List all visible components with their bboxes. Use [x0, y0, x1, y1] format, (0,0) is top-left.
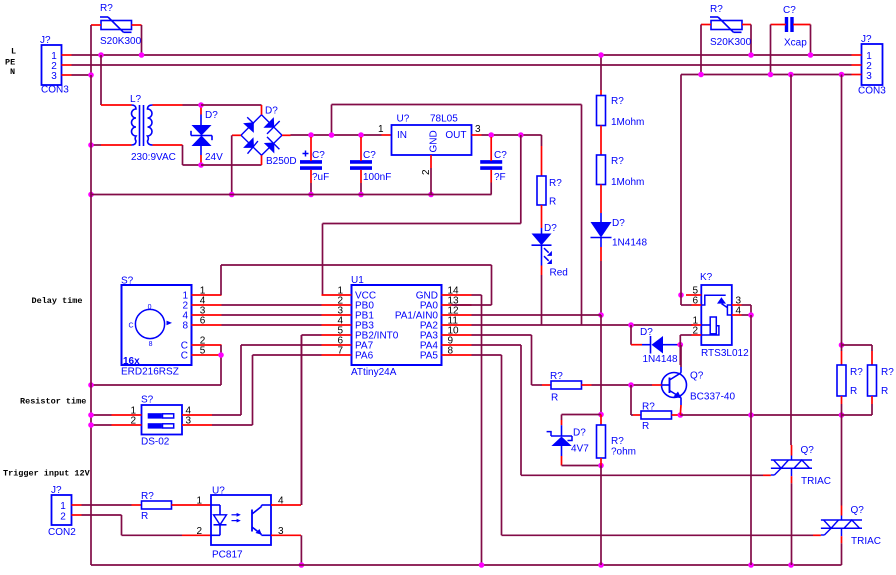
svg-text:24V: 24V — [205, 152, 223, 163]
svg-text:R: R — [549, 197, 556, 208]
svg-text:C?: C? — [783, 5, 796, 16]
svg-text:TRIAC: TRIAC — [801, 476, 831, 487]
svg-text:Q?: Q? — [801, 445, 815, 456]
svg-text:R: R — [881, 386, 888, 397]
svg-text:8: 8 — [149, 341, 153, 348]
svg-text:D?: D? — [612, 218, 625, 229]
svg-text:U1: U1 — [351, 275, 364, 286]
svg-text:R?: R? — [611, 156, 624, 167]
svg-text:R?: R? — [850, 367, 863, 378]
svg-text:U?: U? — [212, 486, 225, 497]
svg-text:R?: R? — [881, 367, 894, 378]
svg-text:U?: U? — [397, 114, 410, 125]
svg-text:2: 2 — [60, 511, 66, 522]
svg-text:S?: S? — [141, 395, 154, 406]
svg-text:R: R — [141, 511, 148, 522]
svg-text:2: 2 — [196, 526, 202, 537]
svg-text:2: 2 — [130, 416, 136, 427]
svg-text:R?: R? — [611, 436, 624, 447]
svg-text:3: 3 — [51, 71, 57, 82]
svg-text:C: C — [129, 323, 134, 330]
svg-text:D?: D? — [640, 327, 653, 338]
svg-text:R?: R? — [141, 491, 154, 502]
svg-text:N: N — [10, 67, 15, 77]
svg-text:3: 3 — [866, 71, 872, 82]
svg-text:3: 3 — [475, 124, 481, 135]
svg-text:CON2: CON2 — [48, 527, 76, 538]
svg-text:DS-02: DS-02 — [141, 437, 170, 448]
svg-text:R: R — [551, 393, 558, 404]
svg-text:C?: C? — [363, 150, 376, 161]
svg-text:R: R — [850, 386, 857, 397]
svg-text:PA5: PA5 — [420, 351, 439, 362]
svg-text:R?: R? — [100, 3, 113, 14]
svg-text:J?: J? — [861, 34, 872, 45]
svg-text:TRIAC: TRIAC — [851, 536, 881, 547]
svg-text:8: 8 — [182, 321, 188, 332]
svg-text:S20K300: S20K300 — [100, 36, 142, 47]
svg-text:1: 1 — [196, 496, 202, 507]
svg-text:Trigger input 12V: Trigger input 12V — [3, 469, 91, 479]
svg-text:C?: C? — [312, 150, 325, 161]
svg-text:Resistor time: Resistor time — [20, 397, 86, 407]
svg-text:3: 3 — [186, 416, 192, 427]
svg-text:230:9VAC: 230:9VAC — [131, 152, 176, 163]
svg-text:J?: J? — [51, 485, 62, 496]
svg-text:C: C — [181, 351, 188, 362]
svg-text:R?: R? — [549, 178, 562, 189]
svg-text:Delay time: Delay time — [32, 296, 83, 306]
svg-text:Xcap: Xcap — [784, 38, 807, 49]
svg-text:1N4148: 1N4148 — [643, 354, 678, 365]
svg-text:100nF: 100nF — [363, 172, 391, 183]
svg-text:4V7: 4V7 — [571, 444, 589, 455]
svg-text:R?: R? — [611, 96, 624, 107]
svg-text:B250D: B250D — [266, 156, 297, 167]
svg-text:D?: D? — [205, 110, 218, 121]
svg-text:CON3: CON3 — [41, 85, 69, 96]
svg-text:PE: PE — [5, 58, 15, 68]
svg-text:78L05: 78L05 — [430, 114, 458, 125]
svg-text:L?: L? — [130, 94, 142, 105]
svg-text:ERD216RSZ: ERD216RSZ — [121, 367, 179, 378]
svg-text:RTS3L012: RTS3L012 — [701, 348, 749, 359]
svg-text:1Mohm: 1Mohm — [611, 177, 644, 188]
svg-text:4: 4 — [736, 306, 742, 317]
svg-text:5: 5 — [200, 346, 206, 357]
svg-text:IN: IN — [397, 130, 407, 141]
svg-text:CON3: CON3 — [858, 86, 886, 97]
svg-text:0: 0 — [148, 304, 152, 311]
svg-text:D?: D? — [544, 223, 557, 234]
svg-text:OUT: OUT — [445, 130, 466, 141]
svg-text:ATtiny24A: ATtiny24A — [351, 367, 397, 378]
svg-text:6: 6 — [692, 296, 698, 307]
svg-text:8: 8 — [448, 346, 454, 357]
svg-text:R?: R? — [550, 371, 563, 382]
svg-text:2: 2 — [692, 326, 698, 337]
svg-text:Q?: Q? — [851, 505, 865, 516]
svg-text:Red: Red — [550, 268, 568, 279]
svg-text:S?: S? — [121, 276, 134, 287]
svg-text:K?: K? — [700, 272, 713, 283]
svg-text:?F: ?F — [494, 172, 506, 183]
svg-text:16x: 16x — [123, 356, 140, 367]
svg-text:D?: D? — [265, 106, 278, 117]
svg-text:1N4148: 1N4148 — [612, 238, 647, 249]
svg-text:BC337-40: BC337-40 — [690, 392, 735, 403]
svg-text:PA6: PA6 — [355, 351, 374, 362]
svg-text:GND: GND — [429, 130, 440, 152]
svg-text:S20K300: S20K300 — [710, 37, 752, 48]
svg-text:R: R — [642, 421, 649, 432]
svg-text:?ohm: ?ohm — [611, 447, 636, 458]
svg-text:PC817: PC817 — [212, 550, 243, 561]
svg-text:D?: D? — [573, 428, 586, 439]
svg-text:J?: J? — [40, 35, 51, 46]
svg-text:L: L — [11, 47, 16, 57]
svg-text:?uF: ?uF — [312, 172, 329, 183]
svg-text:C?: C? — [494, 150, 507, 161]
svg-text:1Mohm: 1Mohm — [611, 117, 644, 128]
svg-text:1: 1 — [378, 124, 384, 135]
svg-text:6: 6 — [200, 316, 206, 327]
svg-text:Q?: Q? — [690, 371, 704, 382]
svg-text:R?: R? — [710, 4, 723, 15]
svg-text:R?: R? — [642, 402, 655, 413]
svg-text:7: 7 — [337, 346, 343, 357]
